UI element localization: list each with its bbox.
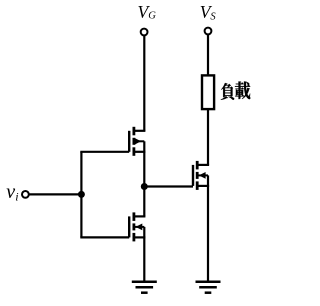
transistor M1 source stub — [134, 151, 146, 153]
terminal VG — [141, 29, 148, 36]
transistor M1 drain stub — [134, 130, 146, 132]
wire gate bus vertical — [80, 152, 82, 238]
transistor M3 source stub — [197, 185, 209, 187]
node middle junction — [141, 183, 148, 190]
transistor M2 gate plate — [128, 216, 130, 237]
transistor M2 body arrow — [136, 224, 143, 231]
transistor M2 channel top segment — [132, 212, 135, 221]
node vi junction — [78, 191, 85, 198]
transistor M2 body-to-source link — [143, 227, 145, 238]
ground right bar 1 — [196, 280, 221, 283]
transistor M2 source stub — [134, 236, 146, 238]
transistor M1 channel top segment — [132, 127, 135, 136]
transistor M2 channel middle segment — [132, 223, 135, 230]
transistor M3 channel middle segment — [196, 172, 199, 179]
wire middle node to M2 drain — [143, 187, 145, 217]
wire VS terminal to load resistor — [207, 35, 209, 76]
transistor M3 channel bottom segment — [196, 181, 199, 190]
ground right bar 2 — [199, 286, 217, 289]
terminal vi — [22, 191, 29, 198]
wire M3 source to right ground — [207, 186, 209, 282]
transistor M1 body-to-source link — [143, 141, 145, 152]
ground right bar 3 — [205, 291, 212, 294]
transistor M1 body arrow — [134, 138, 141, 145]
transistor M1 body line — [134, 140, 144, 142]
label fuzai (load) char 1 — [221, 83, 234, 100]
transistor M1 channel middle segment — [132, 138, 135, 145]
wire middle node to M3 gate — [144, 185, 193, 187]
wire M1 source to middle node — [143, 152, 145, 187]
wire vi terminal to gate bus — [29, 193, 82, 195]
ground left bar 2 — [136, 286, 154, 289]
ground left bar 1 — [132, 280, 157, 283]
transistor M2 channel bottom segment — [132, 233, 135, 242]
wire gate bus to M2 gate — [80, 236, 129, 238]
terminal VS — [205, 28, 212, 35]
transistor M3 body arrow — [199, 172, 206, 179]
wire gate bus to M1 gate — [80, 151, 129, 153]
wire load resistor to M3 drain — [207, 109, 209, 165]
transistor M3 gate plate — [192, 165, 194, 186]
resistor load (fuzai) — [202, 75, 214, 109]
label fuzai (load) char 2 — [235, 81, 250, 99]
ground left bar 3 — [141, 291, 148, 294]
transistor M3 body line — [197, 174, 208, 176]
transistor M2 body line — [134, 226, 144, 228]
wire M2 source to left ground — [143, 237, 145, 281]
transistor M1 channel bottom segment — [132, 147, 135, 156]
transistor M1 gate plate — [128, 131, 130, 152]
transistor M2 drain stub — [134, 215, 146, 217]
transistor M3 body-to-source link — [207, 175, 209, 186]
transistor M3 channel top segment — [196, 161, 199, 170]
transistor M3 drain stub — [197, 164, 209, 166]
wire VG terminal to M1 drain — [143, 36, 145, 131]
